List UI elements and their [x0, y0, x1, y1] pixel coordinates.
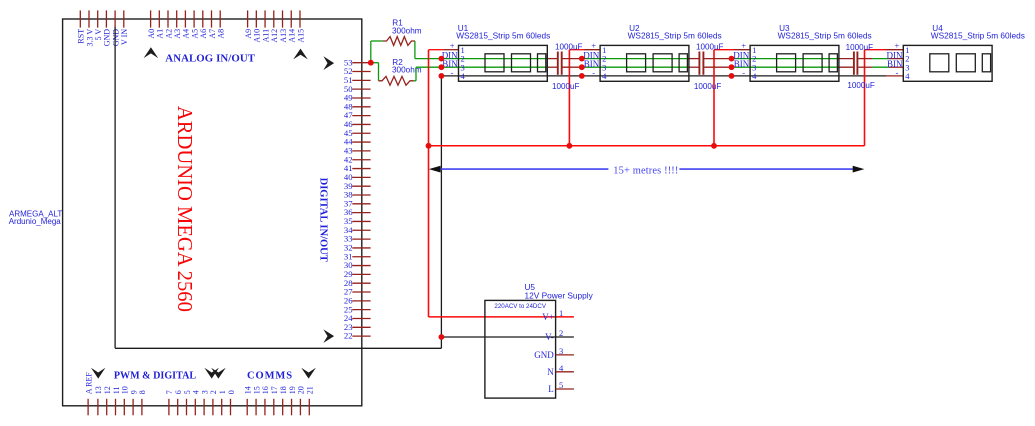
pin 36 (right) [352, 212, 370, 214]
pin 0 (bottom) [230, 399, 232, 416]
svg-text:-: - [451, 68, 454, 78]
pin 27 (right) [352, 291, 370, 293]
svg-text:+: + [450, 40, 455, 50]
pin 7 (bottom) [168, 399, 170, 416]
svg-text:12V Power Supply: 12V Power Supply [525, 290, 594, 300]
svg-text:1000uF: 1000uF [846, 43, 874, 52]
svg-text:13: 13 [94, 386, 103, 394]
pin 51 (right) [352, 79, 370, 81]
svg-text:WS2815_Strip 5m 60leds: WS2815_Strip 5m 60leds [778, 31, 872, 41]
pin A12 (top) [273, 10, 275, 27]
U4 LED square 1 [930, 54, 949, 72]
pin 42 (right) [352, 159, 370, 161]
pin RST (top) [79, 10, 81, 27]
svg-text:A5: A5 [190, 29, 199, 39]
svg-text:22: 22 [344, 331, 353, 341]
LED strip U3 [750, 45, 839, 81]
svg-text:RST: RST [77, 29, 86, 44]
wire V+ into U5 [429, 316, 574, 318]
junction pin53 [368, 60, 374, 66]
pin 8 (bottom) [141, 399, 143, 416]
pin 10 (bottom) [123, 399, 125, 416]
wire DIN U3->U4 [837, 58, 853, 60]
pin 53 (right) [352, 62, 370, 64]
arrow down (aref) [91, 368, 105, 379]
svg-text:1000uF: 1000uF [847, 81, 875, 90]
junction rail riser U3 [711, 143, 717, 149]
pin A1 (top) [158, 10, 160, 27]
U1 LED square 2 [512, 54, 531, 72]
pin 17 (bottom) [273, 399, 275, 416]
pin 20 (bottom) [299, 399, 301, 416]
pin 44 (right) [352, 141, 370, 143]
pin 22 (right) [352, 335, 370, 337]
svg-text:WS2815_Strip 5m 60leds: WS2815_Strip 5m 60leds [931, 31, 1025, 41]
pin A11 (top) [264, 10, 266, 27]
svg-text:4: 4 [192, 390, 201, 394]
svg-text:1000uF: 1000uF [694, 82, 722, 91]
svg-text:3: 3 [559, 346, 563, 356]
svg-text:3.3 V: 3.3 V [85, 29, 94, 47]
pin 26 (right) [352, 300, 370, 302]
svg-text:A13: A13 [279, 29, 288, 43]
svg-text:4: 4 [602, 71, 607, 81]
resistor R1 [383, 37, 415, 46]
svg-text:1: 1 [218, 390, 227, 394]
svg-text:ARDUNIO MEGA 2560: ARDUNIO MEGA 2560 [173, 106, 195, 312]
U3 LED square 2 [803, 54, 822, 72]
junction rail/riser U5 [426, 143, 432, 149]
resistor R2 [379, 76, 414, 85]
svg-text:4: 4 [752, 71, 757, 81]
pin 9 (bottom) [132, 399, 134, 416]
pin 30 (right) [352, 265, 370, 267]
pin 24 (right) [352, 317, 370, 319]
pin 21 (bottom) [308, 399, 310, 416]
junction GND x=731.5 [729, 73, 735, 79]
svg-text:1000uF: 1000uF [552, 82, 580, 91]
wire +12V to U1 pin1 [429, 49, 445, 51]
pin 37 (right) [352, 203, 370, 205]
svg-text:2: 2 [209, 390, 218, 394]
U1 LED square 3 (clipped) [538, 54, 546, 72]
wire DIN U2->U3 [688, 58, 699, 60]
pin 47 (right) [352, 115, 370, 117]
pin A15 (top) [299, 10, 301, 27]
arrow up (analog) [144, 47, 159, 58]
svg-text:ANALOG IN/OUT: ANALOG IN/OUT [165, 52, 255, 64]
svg-text:-: - [592, 68, 595, 78]
svg-text:V-: V- [545, 332, 554, 342]
arrowhead left [429, 166, 441, 173]
power supply U5 body [485, 300, 556, 398]
wire green R1 out to DIN row [414, 41, 416, 59]
IC Arduino Mega 2560 body [63, 19, 362, 406]
svg-text:+: + [591, 40, 596, 50]
pin 2 (bottom) [212, 399, 214, 416]
U5 pin 4 N [556, 371, 574, 373]
pin A7 (top) [211, 10, 213, 27]
svg-text:7: 7 [165, 390, 174, 394]
svg-text:21: 21 [306, 386, 315, 394]
svg-text:9: 9 [129, 390, 138, 394]
svg-text:Ardunio_Mega: Ardunio_Mega [9, 217, 62, 226]
wire +12V riser U4 [864, 50, 866, 146]
pin A2 (top) [167, 10, 169, 27]
wire green R2 out to BIN row [414, 80, 417, 82]
svg-text:A1: A1 [156, 29, 165, 39]
capacitor C1 1000uF (plates) [557, 52, 559, 75]
pin 33 (right) [352, 238, 370, 240]
U1 LED square 1 [485, 54, 504, 72]
LED strip U1 [459, 45, 548, 81]
svg-text:A11: A11 [261, 29, 270, 42]
wire GND horizontal [115, 347, 441, 349]
svg-text:COMMS: COMMS [247, 371, 293, 382]
pin 14 (bottom) [246, 399, 248, 416]
pin A10 (top) [255, 10, 257, 27]
arrow double down (pwm) [204, 368, 219, 379]
pin 19 (bottom) [291, 399, 293, 416]
svg-text:1: 1 [559, 308, 563, 318]
svg-text:4: 4 [905, 71, 910, 81]
junction V- wire [439, 334, 445, 340]
LED strip U4 [903, 45, 992, 81]
svg-text:17: 17 [270, 386, 279, 394]
arrowhead right [853, 166, 865, 173]
pin 3 (bottom) [203, 399, 205, 416]
U4 LED square 2 [956, 54, 975, 72]
svg-text:5: 5 [559, 380, 563, 390]
pin 18 (bottom) [282, 399, 284, 416]
pin 25 (right) [352, 309, 370, 311]
svg-text:11: 11 [112, 386, 121, 394]
svg-text:A14: A14 [288, 29, 297, 43]
svg-text:15+ metres !!!!: 15+ metres !!!! [613, 165, 678, 176]
svg-text:WS2815_Strip 5m 60leds: WS2815_Strip 5m 60leds [628, 31, 722, 41]
svg-text:6: 6 [174, 390, 183, 394]
junction GND x=441.4 [439, 73, 445, 79]
pin GND (top) [114, 10, 116, 27]
wire BIN U2->U3 [688, 66, 699, 68]
svg-text:GND: GND [103, 29, 112, 47]
U2 LED square 1 [627, 54, 646, 72]
svg-text:A12: A12 [270, 29, 279, 43]
pin 5 V (top) [97, 10, 99, 27]
wire DIN data line through U1 [441, 58, 547, 60]
U3 LED square 3 (clipped) [829, 54, 837, 72]
wire +12V riser from U5 [428, 50, 430, 317]
dimension line 15+ metres [440, 168, 608, 170]
svg-text:A8: A8 [217, 29, 226, 39]
svg-text:20: 20 [297, 386, 306, 394]
svg-text:A15: A15 [296, 29, 305, 43]
pin A14 (top) [290, 10, 292, 27]
svg-text:18: 18 [279, 386, 288, 394]
pin A9 (top) [247, 10, 249, 27]
junction BIN x=731.5 [729, 64, 735, 70]
pin 29 (right) [352, 273, 370, 275]
svg-text:14: 14 [244, 386, 253, 394]
arrow right (pin 53) [323, 56, 334, 70]
svg-text:A7: A7 [208, 29, 217, 39]
svg-text:8: 8 [138, 390, 147, 394]
wire BIN U3->U4 [837, 66, 853, 68]
svg-text:-: - [895, 68, 898, 78]
wire DIN U1->U2 [547, 58, 557, 60]
pin 35 (right) [352, 220, 370, 222]
pin A4 (top) [184, 10, 186, 27]
pin 38 (right) [352, 194, 370, 196]
junction DIN x=731.5 [729, 56, 735, 62]
U4 LED square 3 (clipped) [982, 54, 990, 72]
wire green pin53 to R1 [370, 41, 372, 63]
pin 4 (bottom) [194, 399, 196, 416]
svg-text:16: 16 [261, 386, 270, 394]
pin 48 (right) [352, 106, 370, 108]
junction rail riser U2 [567, 143, 573, 149]
svg-text:A2: A2 [164, 29, 173, 39]
svg-text:12: 12 [103, 386, 112, 394]
pin A REF (bottom) [87, 399, 89, 416]
pin 16 (bottom) [264, 399, 266, 416]
wire +12V rail [429, 145, 865, 147]
svg-text:2: 2 [559, 328, 563, 338]
arrow right (pin 22) [323, 329, 334, 343]
svg-text:N: N [547, 367, 554, 377]
wire BIN U1->U2 [547, 66, 557, 68]
svg-text:5: 5 [183, 390, 192, 394]
pin 40 (right) [352, 176, 370, 178]
U2 LED square 3 (clipped) [679, 54, 687, 72]
svg-text:220ACV to 24DCV: 220ACV to 24DCV [494, 303, 546, 310]
pin 45 (right) [352, 132, 370, 134]
pin 5 (bottom) [186, 399, 188, 416]
junction GND x=581.8 [579, 73, 585, 79]
LED strip U2 [600, 45, 689, 81]
pin 41 (right) [352, 168, 370, 170]
wire green pin53 to R2 [371, 62, 379, 64]
svg-text:0: 0 [227, 390, 236, 394]
U5 pin 3 GND [556, 354, 574, 356]
svg-text:V IN: V IN [120, 29, 129, 45]
pin 46 (right) [352, 123, 370, 125]
svg-text:A3: A3 [173, 29, 182, 39]
svg-text:GND: GND [534, 350, 554, 360]
pin A6 (top) [202, 10, 204, 27]
pin 31 (right) [352, 256, 370, 258]
pin 39 (right) [352, 185, 370, 187]
svg-text:1000uF: 1000uF [696, 42, 724, 51]
svg-text:A REF: A REF [84, 372, 93, 395]
pin GND (top) [105, 10, 107, 27]
svg-text:A10: A10 [253, 29, 262, 43]
svg-text:15: 15 [252, 386, 261, 394]
svg-text:3: 3 [200, 390, 209, 394]
junction DIN x=581.8 [579, 56, 585, 62]
arrow up (A15) [293, 49, 308, 60]
pin 23 (right) [352, 326, 370, 328]
svg-text:A0: A0 [147, 29, 156, 39]
pin 6 (bottom) [177, 399, 179, 416]
junction BIN x=441.4 [439, 64, 445, 70]
U3 LED square 1 [777, 54, 796, 72]
svg-text:GND: GND [111, 29, 120, 47]
svg-text:5 V: 5 V [94, 29, 103, 41]
svg-text:300ohm: 300ohm [392, 27, 422, 36]
pin 28 (right) [352, 282, 370, 284]
pin 34 (right) [352, 229, 370, 231]
pin A0 (top) [150, 10, 152, 27]
svg-text:L: L [548, 384, 554, 394]
wire GND vertical riser [440, 76, 442, 348]
capacitor C2 1000uF (plates) [698, 52, 700, 75]
svg-text:A9: A9 [244, 29, 253, 39]
wire +12V riser U2 [568, 50, 570, 146]
svg-text:WS2815_Strip 5m 60leds: WS2815_Strip 5m 60leds [456, 31, 550, 41]
svg-text:19: 19 [288, 386, 297, 394]
pin A3 (top) [176, 10, 178, 27]
pin 13 (bottom) [97, 399, 99, 416]
pin A13 (top) [282, 10, 284, 27]
pin 43 (right) [352, 150, 370, 152]
pin 4 stub U4 [886, 75, 903, 77]
junction BIN x=581.8 [579, 64, 585, 70]
svg-text:V+: V+ [542, 312, 554, 322]
pin A8 (top) [219, 10, 221, 27]
pin 50 (right) [352, 88, 370, 90]
svg-text:+: + [895, 40, 900, 50]
svg-text:+: + [741, 40, 746, 50]
wire +12V riser U3 [713, 50, 715, 146]
svg-text:DIGITAL IN/OUT: DIGITAL IN/OUT [317, 178, 328, 262]
junction DIN x=441.4 [439, 56, 445, 62]
svg-text:-: - [742, 68, 745, 78]
wire V- into U5 [441, 336, 574, 338]
svg-text:A4: A4 [182, 29, 191, 39]
U2 LED square 2 [653, 54, 672, 72]
wire GND from pin to bottom [114, 27, 116, 348]
svg-text:PWM & DIGITAL: PWM & DIGITAL [114, 371, 197, 382]
pin 49 (right) [352, 97, 370, 99]
svg-text:1000uF: 1000uF [555, 42, 583, 51]
pin 12 (bottom) [106, 399, 108, 416]
pin 11 (bottom) [115, 399, 117, 416]
wire BIN data line through U1 [441, 66, 547, 68]
pin 32 (right) [352, 247, 370, 249]
pin V IN (top) [123, 10, 125, 27]
pin 52 (right) [352, 71, 370, 73]
pin 1 (bottom) [221, 399, 223, 416]
svg-text:A6: A6 [199, 29, 208, 39]
wire GND rail under strips [441, 75, 886, 77]
capacitor C3 1000uF (plates) [853, 52, 855, 75]
svg-text:10: 10 [121, 386, 130, 394]
arrow down (comms) [301, 368, 316, 379]
U5 pin 5 L [556, 388, 574, 390]
pin 15 (bottom) [255, 399, 257, 416]
pin A5 (top) [193, 10, 195, 27]
pin 3.3 V (top) [88, 10, 90, 27]
